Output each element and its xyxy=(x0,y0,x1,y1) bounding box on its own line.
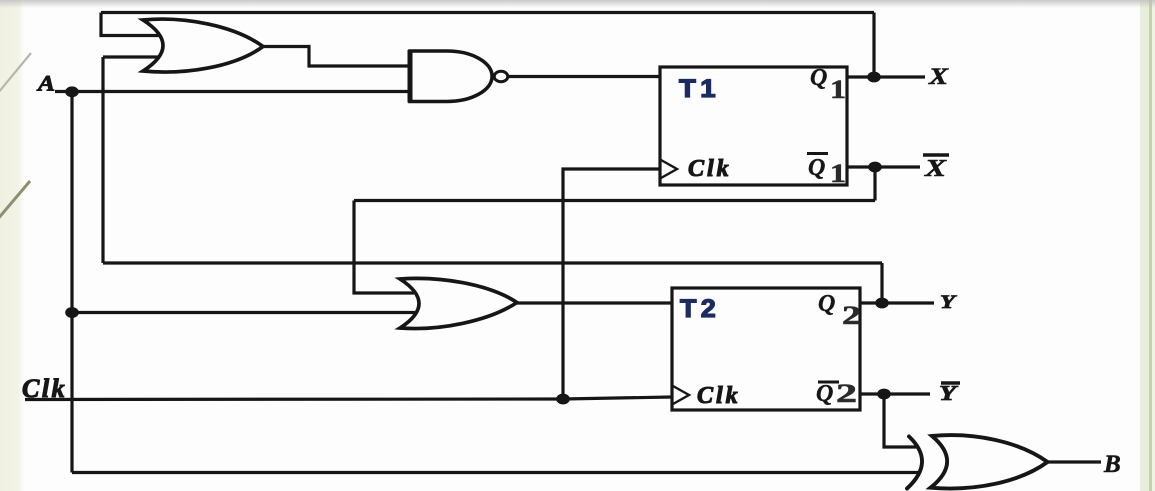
wire A branch bottom to XOR input xyxy=(72,471,919,474)
xor-gate G4 (inputs Ybar, A) xyxy=(907,435,1048,488)
svg-text:1: 1 xyxy=(830,75,846,104)
svg-text:Q: Q xyxy=(810,65,827,91)
label Ybar output xyxy=(941,381,960,384)
xor body xyxy=(931,435,1048,488)
T1 clock edge triangle xyxy=(661,160,677,178)
top fade band xyxy=(0,0,1155,8)
wire top rail X feedback xyxy=(101,11,874,14)
node Y xyxy=(875,298,889,309)
wire Y feedback vertical from OR1 bottom input xyxy=(101,57,104,263)
label Q1bar pin xyxy=(807,152,828,155)
svg-text:T1: T1 xyxy=(679,75,720,103)
wire Y feedback horizontal xyxy=(103,261,882,264)
wire input A horizontal to NAND xyxy=(55,90,410,93)
svg-text:Y: Y xyxy=(939,381,959,405)
node Xbar xyxy=(868,162,882,173)
wire Clk input horizontal xyxy=(25,397,672,400)
svg-text:Q: Q xyxy=(816,381,833,407)
right template stripe xyxy=(1140,0,1155,491)
wire Clk riser to T1 xyxy=(563,169,660,399)
nand-gate G2 xyxy=(410,50,508,103)
svg-text:T2: T2 xyxy=(680,295,720,323)
svg-text:Clk: Clk xyxy=(697,383,741,409)
right stripe light edge xyxy=(1152,0,1155,491)
wire Ybar drop to XOR top input xyxy=(884,394,917,447)
node Ybar xyxy=(877,389,891,400)
node A branch to OR2 xyxy=(65,307,79,318)
label Xbar output xyxy=(923,153,949,156)
right stripe darker line xyxy=(1149,0,1152,491)
wire A vertical branch xyxy=(70,92,73,473)
label Q2bar pin xyxy=(818,381,839,384)
wire OR2 output to T2 T input xyxy=(517,301,672,304)
svg-text:A: A xyxy=(36,71,55,96)
wire Y feedback drop to Q2 node xyxy=(880,263,883,303)
left stripe diagonal 2 xyxy=(0,181,30,220)
wire Xbar feedback drop xyxy=(873,167,876,201)
svg-text:2: 2 xyxy=(836,379,857,408)
node X xyxy=(867,72,881,83)
wire OR1 bottom input stub xyxy=(103,55,161,58)
wire rail left drop to OR1 top input xyxy=(101,13,161,36)
svg-text:Clk: Clk xyxy=(688,156,732,182)
wire rail right drop to Q1 node xyxy=(872,13,875,78)
T2 clock edge triangle xyxy=(673,386,689,404)
or-gate G1 (inputs X, Y) xyxy=(143,19,263,72)
wire Q2 output to Y xyxy=(860,301,934,304)
nand output bubble xyxy=(494,71,508,81)
wire OR1 output step to NAND top input xyxy=(263,47,410,67)
svg-text:1: 1 xyxy=(830,159,846,188)
wire A branch to OR2 bottom input xyxy=(72,311,415,314)
svg-text:2: 2 xyxy=(842,301,861,330)
xor leading arc xyxy=(907,437,922,489)
nand left edge thick xyxy=(408,50,413,103)
wire XOR output to B xyxy=(1048,460,1101,463)
wire Xbar feedback horizontal xyxy=(354,199,875,202)
wire Xbar feedback drop to OR2 top input xyxy=(354,201,414,294)
wire NAND output to T1 T input xyxy=(508,75,660,78)
flip-flop T1 xyxy=(660,65,847,188)
svg-text:Q: Q xyxy=(818,291,835,317)
node Clk branch xyxy=(556,394,570,405)
or-gate G3 (inputs Xbar, A) xyxy=(400,278,517,328)
svg-text:X: X xyxy=(928,64,949,89)
node A branch on input line xyxy=(65,86,79,97)
svg-text:Q: Q xyxy=(808,155,825,181)
left template stripe xyxy=(0,0,24,491)
left stripe diagonal 1 xyxy=(0,53,31,93)
wire Q1 output to X xyxy=(847,75,925,78)
wire Q2bar output to Ybar xyxy=(860,392,930,395)
wire Q1bar output to Xbar xyxy=(847,165,920,168)
svg-text:B: B xyxy=(1103,451,1121,478)
svg-text:Clk: Clk xyxy=(22,374,67,403)
svg-text:X: X xyxy=(924,156,948,182)
flip-flop T2 xyxy=(672,288,861,410)
